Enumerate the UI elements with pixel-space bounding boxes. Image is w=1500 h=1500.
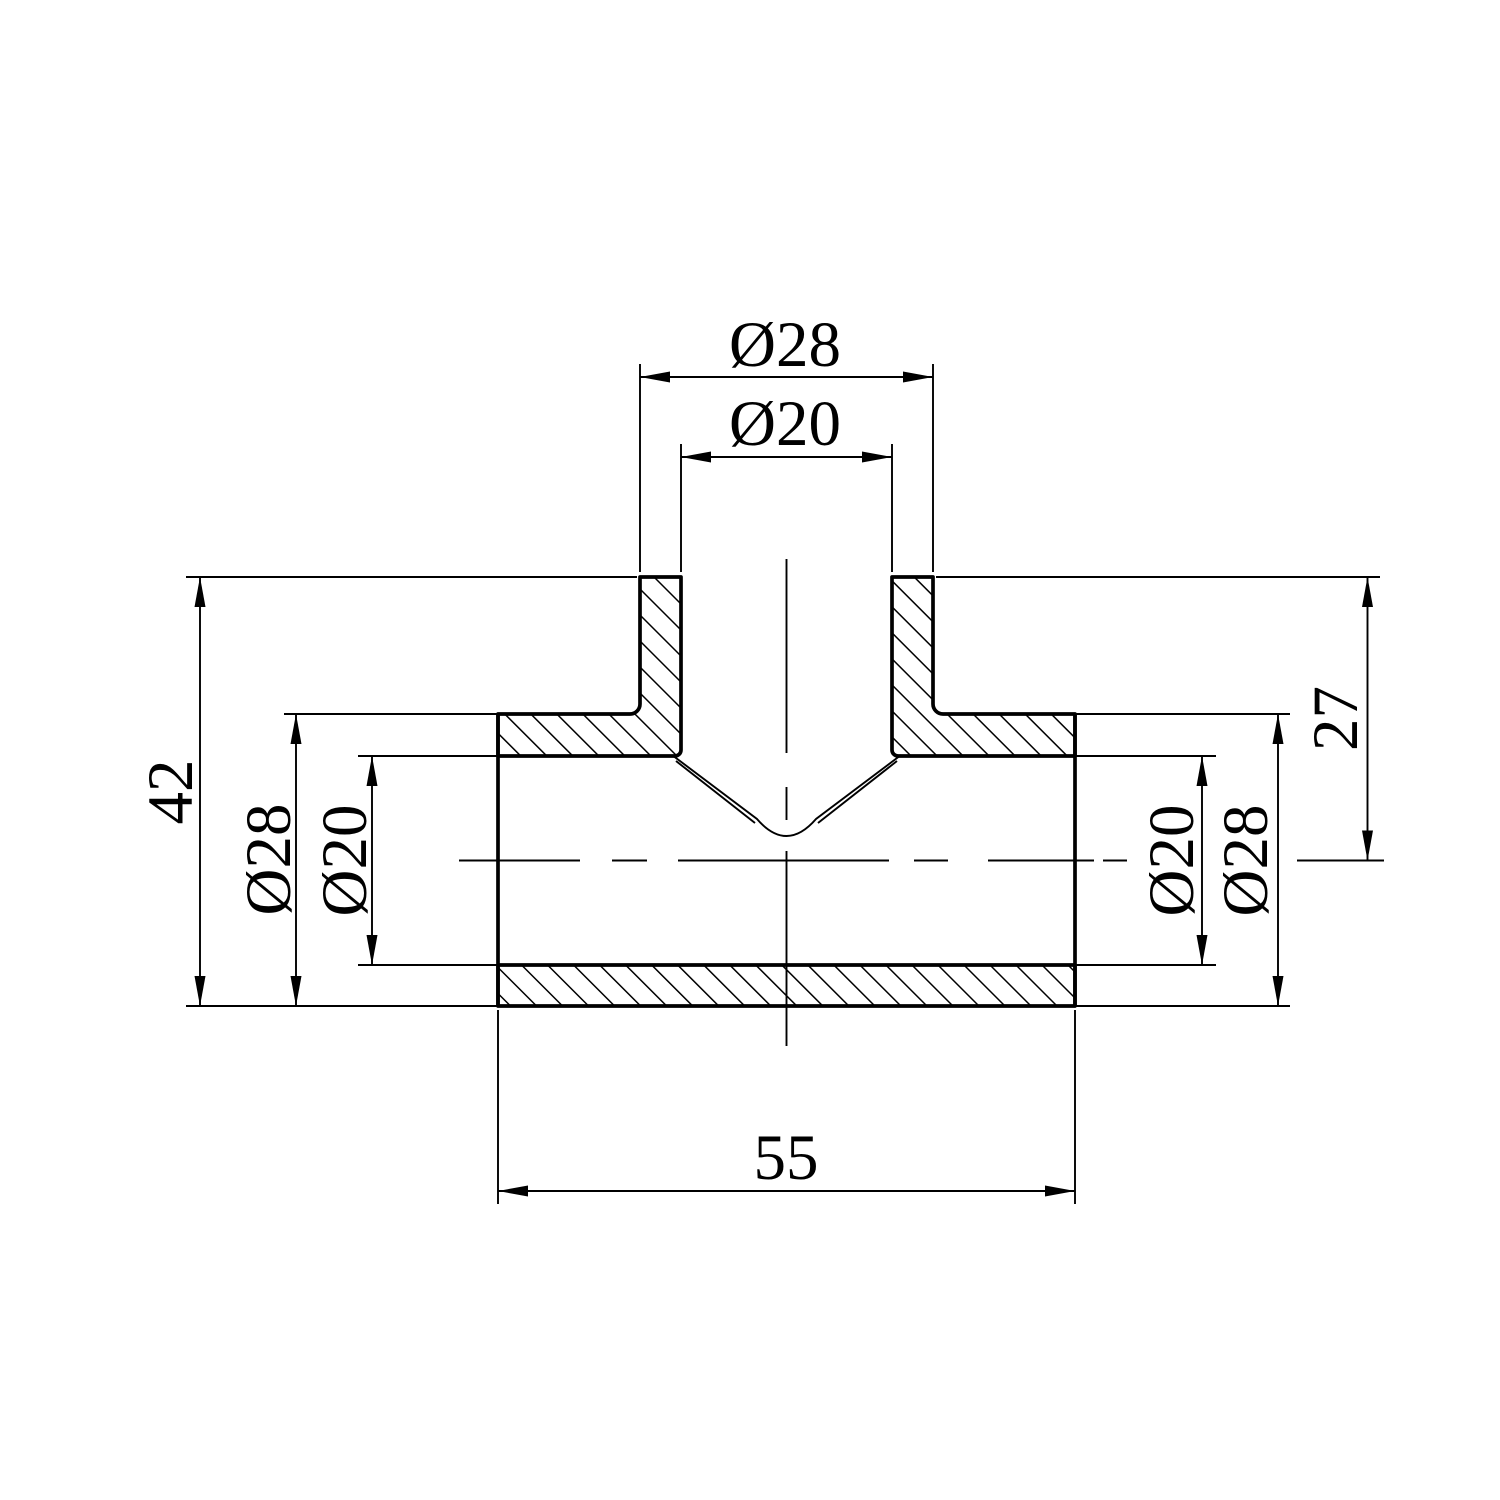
dimension 55 run length <box>498 1122 1075 1197</box>
extension line branch inner right (Ø20 top) <box>891 444 893 572</box>
svg-text:Ø20: Ø20 <box>1136 805 1208 917</box>
socket cone right inner line <box>818 761 897 823</box>
extension line bottom-right (Ø28 right, pipe outer bottom) <box>1075 1005 1290 1007</box>
extension line right at pipe outer top (Ø28 right) <box>1075 713 1290 715</box>
extension line branch outer right (Ø28 top) <box>932 364 934 572</box>
pipe right end face <box>1073 714 1077 1006</box>
dimension Ø28 run outer left <box>233 714 305 1006</box>
extension line bottom-left (42 / Ø28 left, pipe outer bottom) <box>186 1005 498 1007</box>
extension line branch outer left (Ø28 top) <box>639 364 641 572</box>
svg-text:27: 27 <box>1300 686 1372 751</box>
socket cone V outline <box>672 755 901 836</box>
svg-text:Ø28: Ø28 <box>233 804 305 916</box>
horizontal centerline of run pipe <box>459 860 1384 862</box>
extension line pipe left end (55 dim) <box>497 1010 499 1204</box>
dimension Ø20 run bore right <box>1136 756 1208 965</box>
socket cone left inner line <box>676 761 755 823</box>
svg-text:Ø28: Ø28 <box>1210 805 1282 917</box>
dimension 42 overall height <box>135 577 207 1006</box>
extension line top-right (27 dim, branch top) <box>936 576 1380 578</box>
dimension Ø28 run outer right <box>1210 714 1284 1006</box>
tee body left branch wall (hatched L-section) <box>498 577 681 756</box>
dimension Ø28 branch outer width <box>640 309 933 383</box>
dimension Ø20 branch bore <box>681 388 892 463</box>
extension line branch inner left (Ø20 top) <box>680 444 682 572</box>
pipe left end face <box>496 714 500 1006</box>
extension line pipe right end (55 dim) <box>1074 1010 1076 1204</box>
svg-text:55: 55 <box>754 1122 819 1194</box>
svg-text:Ø20: Ø20 <box>729 388 841 460</box>
svg-text:42: 42 <box>135 760 207 825</box>
tee body bottom pipe wall (hatched section) <box>498 965 1075 1006</box>
extension line left at pipe outer top (Ø28 left) <box>284 713 498 715</box>
extension line top-left (42 dim, branch top) <box>186 576 637 578</box>
extension line right at pipe inner bottom (Ø20 right) <box>1075 964 1216 966</box>
tee body right branch wall (hatched L-section) <box>892 577 1075 756</box>
dimension 27 branch top to axis <box>1300 577 1373 861</box>
extension line left at pipe inner top (Ø20 left) <box>358 755 498 757</box>
dimension Ø20 run bore left <box>309 756 381 965</box>
extension line right at pipe inner top (Ø20 right) <box>1075 755 1216 757</box>
extension line left at pipe inner bottom (Ø20 left) <box>358 964 498 966</box>
svg-text:Ø28: Ø28 <box>729 309 841 381</box>
svg-text:Ø20: Ø20 <box>309 805 381 917</box>
vertical centerline of branch <box>786 559 788 1046</box>
